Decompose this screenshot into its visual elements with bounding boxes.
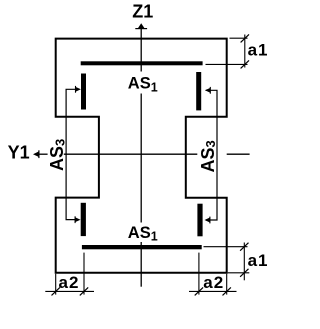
axis Z1 arrowhead	[135, 23, 147, 29]
leader left top arrowhead	[75, 86, 81, 93]
dimension a2 bottom-right: tick marks	[195, 287, 231, 295]
leader left (AS3 bars)	[66, 89, 76, 219]
svg-text:a1: a1	[248, 41, 269, 60]
rebar AS1 bottom bar	[82, 245, 202, 249]
axis Y1 arrowhead	[33, 150, 39, 158]
leader right top arrowhead	[205, 87, 211, 94]
leader left bottom arrowhead	[75, 216, 81, 223]
dimension a2 bottom-right: extension lines	[189, 253, 237, 295]
svg-text:a1: a1	[248, 251, 269, 270]
leader right bottom arrowhead	[205, 217, 211, 224]
dimension a2 bottom-left: tick marks	[52, 287, 89, 295]
dimension a1 bottom: extension lines	[204, 243, 250, 281]
dimension a1 top: extension lines	[206, 35, 248, 68]
axis Y1 line	[37, 153, 250, 155]
label AS3 right (rotated)	[198, 140, 218, 172]
label AS3 left (rotated)	[47, 139, 67, 171]
section outline (I-shaped cross-section)	[56, 39, 227, 273]
axis Z1 line	[140, 29, 142, 287]
rebar AS3 bottom-right bar	[197, 204, 202, 237]
rebar AS1 top bar	[81, 61, 203, 65]
svg-text:a2: a2	[203, 273, 224, 292]
leader right (AS3 bars)	[206, 90, 217, 220]
svg-text:Z1: Z1	[132, 2, 153, 22]
dimension a1 bottom: tick marks	[240, 243, 248, 277]
rebar AS3 bottom-left bar	[81, 203, 86, 236]
dimension a1 top: tick marks	[241, 34, 249, 68]
rebar AS3 top-right bar	[196, 72, 201, 110]
svg-text:Y1: Y1	[8, 142, 30, 162]
svg-text:a2: a2	[59, 273, 80, 292]
rebar AS3 top-left bar	[81, 74, 86, 110]
dimension a2 bottom-left: extension lines	[45, 253, 94, 295]
